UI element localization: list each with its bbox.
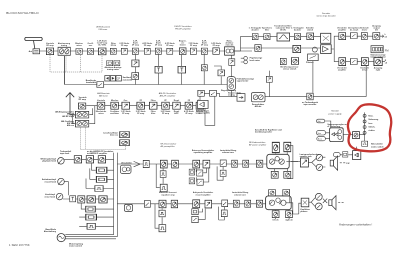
AM RF stage box [78,103,85,109]
bandwidth switch box [97,82,104,88]
svg-text:ZF amp: ZF amp [185,113,193,115]
svg-text:FM-ZF-Verstärker: FM-ZF-Verstärker [174,25,192,28]
wire: pilot drop to tape out [312,61,314,93]
svg-text:ZF amp: ZF amp [162,113,170,115]
svg-text:AM-ZF-amplifier: AM-ZF-amplifier [160,94,176,97]
svg-text:fuse: fuse [368,123,373,125]
svg-text:de-emph: de-emph [350,30,359,32]
svg-text:Decoder: Decoder [322,12,331,15]
upper driver box 4 [283,190,290,196]
wire: AM stack connect [72,106,94,124]
svg-text:mains switch: mains switch [371,145,384,148]
wire: decoder in from row1 lower [262,47,321,49]
AM stage A2 [111,102,119,109]
tape rec stage C3 [99,196,107,203]
AM stage labels below [96,110,204,115]
svg-text:level meter: level meter [250,59,261,62]
svg-text:FM: FM [385,48,389,52]
wire: ratio det drop [231,55,233,96]
label battery feed [325,121,331,128]
red annotation circle [348,104,391,151]
stage V11 [190,48,196,54]
AM stage A8 [185,102,193,109]
R row labels below [337,66,383,71]
AM stage labels above [97,99,202,102]
svg-text:UKW-Baustein: UKW-Baustein [96,26,111,29]
svg-text:AGC: AGC [174,112,179,115]
svg-text:ZF amp: ZF amp [155,45,163,47]
L output arrow [380,35,383,38]
svg-text:FM tuner: FM tuner [99,28,108,31]
mains input pill 2 [317,137,326,141]
wire: AM chain line [86,105,204,107]
erase head [56,193,63,200]
svg-text:ZF amp: ZF amp [137,113,145,115]
decoder stage D4 [307,33,314,40]
svg-text:speaker jack: speaker jack [300,156,313,158]
preamp stage P3 [193,160,200,168]
stage V5 [121,48,127,54]
L phone jack circle 1 [316,154,322,160]
svg-text:playback head: playback head [42,161,57,163]
AM stage A4 [137,102,145,109]
stage V13 [213,48,220,55]
pilot lamp circle [312,47,317,52]
deemphasis box [132,60,139,67]
relay box 2 [96,176,107,182]
main speaker L [330,160,333,166]
svg-text:tape deck: tape deck [60,152,70,155]
AGC stage box [201,65,207,71]
tape chassis frame line 2 [116,153,118,237]
feedback box a2 [197,170,203,176]
wire: right amp links [276,197,299,219]
wire: aux stub [128,203,130,206]
wire: antenna lead-in [34,41,35,49]
svg-text:1 W: 1 W [346,163,350,165]
tone stage T4 [233,200,239,207]
wire: R row line [346,61,385,63]
pulse relay box [95,185,103,191]
tape chassis frame line 1 [113,153,115,235]
voltage regulator box [330,128,344,142]
stage V12 [201,48,207,54]
line out box a [342,152,347,157]
svg-text:to AM/FM IF amplifier: to AM/FM IF amplifier [87,152,107,155]
svg-text:stereo mpx decoder: stereo mpx decoder [316,15,336,18]
muting amp box [229,59,235,66]
wire: meter drop at x181 [181,55,183,85]
tone stage T5 [245,200,251,207]
level indicator circles [244,56,248,60]
svg-text:driver: driver [362,30,368,32]
mains switch contact 1 [363,114,366,117]
tape output box [307,93,314,100]
AM stage A5 [149,102,157,109]
record head [58,178,65,185]
svg-text:CP: CP [117,78,121,81]
svg-text:volume tone: volume tone [234,193,247,196]
svg-text:doubler: doubler [251,30,259,32]
wire: arrow box stub [214,66,221,85]
svg-text:Netzschalter: Netzschalter [371,143,383,146]
wire: AGC bus [65,84,232,86]
feedback box b2 [197,179,203,185]
wire: regulator to series transistor [343,134,352,136]
station buttons left [105,76,110,81]
AM demodulator double circle [251,93,265,102]
line out pill [333,153,340,157]
svg-text:driver: driver [362,70,368,72]
wire: row B line [63,198,114,200]
svg-text:ch: ch [385,62,388,64]
svg-text:tape recorder: tape recorder [304,103,317,106]
wire: record head link [64,182,68,196]
svg-text:phones: phones [300,211,308,213]
svg-text:mixer: mixer [98,113,104,115]
feedback box b [189,178,195,184]
svg-text:Batt: Batt [318,120,322,123]
station buttons mid [110,76,115,81]
stage V1 HF-Vorstufe [46,48,53,55]
svg-text:ratio det: ratio det [225,44,233,47]
main speaker R [329,200,332,206]
svg-text:Netz-: Netz- [368,115,373,118]
ZF filter F1 [110,48,116,54]
svg-text:ZF amp: ZF amp [190,45,198,47]
meter box tape [70,196,76,202]
svg-text:equalizer amp: equalizer amp [161,194,175,196]
muting indicator double circle [227,77,235,91]
wire: AFC to bandwidth [64,56,66,85]
svg-text:record amplifier: record amplifier [195,194,210,196]
wire: amp cluster links [275,146,298,179]
power amp IC right [266,196,292,210]
mains input pill 1 [316,131,325,135]
wire: agc loop [205,97,215,126]
L channel stage L1 [339,33,346,40]
svg-text:Vorstufe: Vorstufe [97,99,106,102]
AGC rectifier box [198,100,209,108]
svg-text:mixer: mixer [76,45,82,47]
headphone jack circle 2 [315,203,322,210]
wire: row D pulse stubs [155,204,162,228]
svg-text:signal meter: signal meter [237,80,249,83]
L channel stage L2 [361,33,367,40]
svg-text:AF preamplifier: AF preamplifier [161,145,175,148]
wire: headphone feed [299,203,301,214]
svg-text:Änderungen vorbehalten !: Änderungen vorbehalten ! [339,222,372,226]
svg-text:Regelspannung: Regelspannung [221,90,237,92]
svg-text:19 kHz: 19 kHz [280,30,286,32]
wire: motor lines [65,235,117,239]
svg-text:AF power amplifier: AF power amplifier [249,143,267,146]
tuning gang (two sections) [58,47,70,55]
svg-text:Osz.: Osz. [124,100,129,102]
AFC dashed feedback box [50,55,102,72]
decoder stage D3 [294,34,300,40]
decoder stage D2 [264,34,270,40]
svg-text:FM-ZF-amplifier: FM-ZF-amplifier [175,27,191,30]
stage V2 Mischstufe [76,48,82,54]
preamp stage P4 [203,160,210,168]
AM sum box [198,90,205,96]
wire: AM row to sum stage [200,93,237,102]
svg-text:tuning meter: tuning meter [107,68,119,71]
svg-text:Filter: Filter [151,99,156,102]
level box 2 [86,214,97,220]
svg-text:doubler: doubler [294,30,302,32]
tape rec stage C1 [78,196,85,203]
left pulse box 2 [160,184,167,192]
tape stage Q2 [171,200,178,208]
tape amp stage B1 [74,156,81,163]
svg-text:volume tone: volume tone [222,151,235,154]
antenna matching box [33,49,40,54]
junction arrows [134,161,140,166]
decoder stage D1 [252,34,258,40]
level box 1 [86,206,96,212]
svg-text:ZF amp: ZF amp [144,45,152,47]
svg-text:ZF amp: ZF amp [213,45,221,47]
row D labels above [159,191,276,196]
line out box b [353,151,361,160]
lower driver box 2 [284,171,291,178]
search tuning box a [107,60,113,65]
svg-text:AM osc: AM osc [67,124,75,127]
tape input round box [120,165,131,173]
svg-text:filter: filter [151,112,156,115]
feedback box c [192,209,199,215]
svg-text:ZF amp: ZF amp [166,45,174,47]
playback head [58,158,65,165]
FM dipole antenna [25,37,42,40]
R channel stage R3 [374,58,382,66]
svg-text:Umschalter: Umschalter [121,162,132,165]
svg-text:Gleich-: Gleich- [368,126,375,128]
left pulse box 1 [160,171,166,178]
svg-text:switch: switch [307,29,314,32]
svg-text:muting: muting [228,94,235,97]
svg-text:oscillator: oscillator [110,112,119,115]
wire: muting drop at x135 [134,55,136,85]
meter box M1 [155,66,162,73]
equalizer box 1 [143,160,149,167]
bias oscillator box 1 [120,132,130,138]
svg-text:left: left [375,29,378,32]
bias oscillator box 2 [120,140,130,146]
wire: pills to regulator [325,133,329,139]
stage V7 [144,48,150,54]
pulse box row D 1 [159,210,165,217]
wire: left pulse stubs [156,164,163,187]
AM input stage dual box 2 [75,120,88,127]
svg-text:ZF filt: ZF filt [111,44,117,47]
wire: b box drops [268,71,270,97]
L channel stage L3 [373,33,380,40]
tape amp stage B3 [98,156,105,163]
wire: headphone split [309,198,315,207]
svg-text:ZF amp: ZF amp [201,45,209,47]
wire: level links [79,203,113,226]
stage V6 [132,48,138,54]
L de-emphasis filter [350,33,357,39]
svg-text:Netz: Netz [318,132,322,135]
svg-text:RF amp: RF amp [79,99,87,101]
tone stage T1 [231,160,237,167]
sensor box 2 [291,58,298,65]
AM drive arrow box [237,94,245,102]
tape stage Q4 [205,200,212,208]
svg-text:bias osc: bias osc [110,135,119,137]
station buttons right [116,76,121,81]
AM input stage dual box 1 [75,111,88,118]
driver stage T3 [256,160,263,167]
stage V3 Oszillator [87,48,93,54]
volume switch box 2 [222,200,228,207]
wire: loudness 2 stub [219,207,225,220]
wire: meter drop at x158 [157,55,159,85]
wire: line out links [340,147,356,155]
svg-text:tuning: tuning [61,44,68,47]
aux input round box [124,204,132,211]
svg-text:1 SEM 167/75K: 1 SEM 167/75K [9,243,30,247]
svg-text:sensor switch: sensor switch [283,67,297,70]
tape stage Q3 [193,200,200,208]
volume switch box [220,160,226,167]
svg-text:amplifier: amplifier [338,70,347,72]
pulse box row D 2 [159,225,166,232]
matrix box [321,33,331,43]
svg-text:ch: ch [385,37,388,39]
stage V8 [155,48,161,54]
svg-text:BLOCKSCHALTBILD: BLOCKSCHALTBILD [6,11,39,15]
ratio detector [225,47,235,55]
R de-emphasis filter [350,58,357,64]
AM stage A6 [162,102,170,109]
svg-text:ZF: ZF [139,100,142,102]
svg-text:Abschaltung: Abschaltung [44,230,57,233]
power amp IC left [267,154,289,168]
decoder amp triangle box [321,45,332,54]
pilot amp lower box [255,45,261,52]
svg-text:richter: richter [368,129,374,132]
stage V4 1. ZF-Stufe [98,48,106,55]
wire: to switch column [359,112,364,146]
wire: row D feed from tape deck [117,203,144,205]
pilot driver box [308,54,319,61]
svg-text:ZF: ZF [164,100,167,102]
AM switch box S [210,90,217,96]
svg-text:Sicherung: Sicherung [368,119,379,121]
svg-text:AM tuner: AM tuner [99,94,108,97]
battery pill [316,119,324,123]
row1 stage labels [46,39,234,47]
arrow stage box [218,70,225,76]
svg-text:limiter: limiter [180,44,186,47]
decoder labels above [249,24,314,31]
svg-text:Accu: Accu [318,138,322,141]
feedback box a [189,169,195,175]
pilot filter block [277,33,290,41]
wire: decoder upper row line [252,36,321,38]
stage V9 [167,48,173,54]
upper driver box 2 [284,142,291,151]
dashed wire: bias to IF amps [81,128,126,150]
wire: drop at x204 [203,55,205,85]
R channel stage R2 [361,58,368,66]
equalizer box 2 [144,201,150,208]
mains switch contact 4 [363,131,366,134]
wire: loudness stub [217,166,223,180]
svg-text:motor control: motor control [69,245,82,248]
svg-text:spannung AGC: spannung AGC [195,111,210,114]
svg-text:AM det: AM det [255,105,262,108]
aux stage box [293,45,301,52]
series regulator transistor box [353,132,360,139]
svg-text:Regel: Regel [174,100,180,102]
AM stage A3 [122,102,130,109]
balance bowtie [323,199,327,203]
svg-text:Ant: Ant [29,50,33,53]
svg-text:right: right [376,69,381,72]
wire: AM det to tape out [265,96,306,98]
svg-text:osc: osc [89,45,93,47]
L speaker coupling box [300,158,308,167]
driver stage T6 [256,200,262,207]
wire: ratio det to decoder row [234,37,254,51]
svg-text:filter: filter [265,29,270,32]
wire: L speaker feed [286,161,300,163]
rectifier pulse box [362,141,368,146]
tone stage T2 [243,160,249,167]
headphone jack circle 1 [315,193,322,200]
FM stereo indicator [371,46,383,53]
wire: row D main line [151,203,266,205]
lower out box 2 [286,211,293,218]
AM stage A9 [196,102,204,109]
svg-text:RF amp: RF amp [46,45,54,47]
meter box M2 [178,66,186,73]
svg-text:Zweitlautsprecher: Zweitlautsprecher [255,131,272,134]
wire: relay links [86,163,114,188]
loudness pulse box 2 [221,210,227,217]
wire: row A line [64,158,113,160]
svg-text:ZF amp: ZF amp [132,45,140,47]
svg-text:Netzteil: Netzteil [331,110,339,113]
svg-text:bandwidth: bandwidth [86,81,97,84]
AM stage A1 [97,102,105,109]
sensor box 1 [280,58,286,64]
upper driver box 3 [269,190,276,196]
svg-text:amplifier: amplifier [338,30,347,32]
wire: matrix to L/R rows [331,36,338,61]
lower out box 1 [272,211,279,218]
AM stage A7 [173,102,181,109]
tape rec stage C2 [87,196,95,203]
svg-text:ZF amp: ZF amp [121,45,129,47]
preamp stage P1 [160,160,167,168]
wire: feedback links [196,168,209,182]
tape amp stage B2 [86,156,93,163]
pulse box tape [87,223,95,229]
tape stage Q1 [159,200,166,208]
svg-text:ZF amp: ZF amp [122,113,130,115]
decoder right labels above [337,24,381,31]
wire: feedback d stubs [195,208,205,219]
capstan motor [57,234,65,242]
wire: row C main line [117,163,266,165]
